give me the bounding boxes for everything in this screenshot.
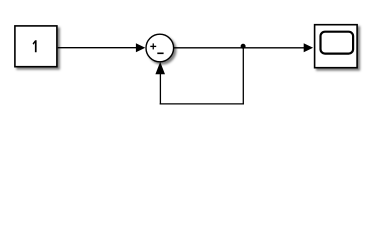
branch dot <box>241 44 246 49</box>
plus sign <box>150 43 156 49</box>
scope screen <box>321 32 354 54</box>
arrowhead into sum <box>136 43 145 52</box>
wire sum to scope <box>174 47 305 49</box>
feedback wire up <box>159 74 161 105</box>
value label 1 <box>33 40 37 52</box>
minus sign <box>157 52 163 54</box>
feedback wire down <box>242 48 244 105</box>
sum block U1 <box>146 34 174 62</box>
feedback wire bottom <box>160 103 244 105</box>
scope block S1 <box>315 25 358 68</box>
arrowhead into sum bottom <box>155 62 165 74</box>
constant block C1 <box>15 26 57 67</box>
arrowhead into scope <box>304 43 313 52</box>
wire constant to sum <box>58 47 138 49</box>
